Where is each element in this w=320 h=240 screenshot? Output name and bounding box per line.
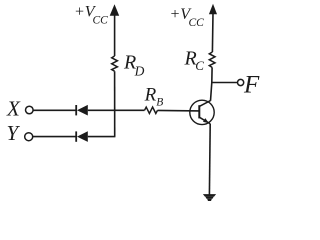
terminal Y — [25, 133, 33, 141]
wire collector rail (arrow to RC) — [211, 13, 214, 52]
resistor RB — [145, 107, 158, 113]
svg-text:F: F — [243, 72, 260, 99]
terminal F — [238, 79, 244, 85]
wire Y to vertical corner — [88, 136, 116, 138]
svg-text:D: D — [134, 64, 145, 79]
wire left vertical (Vcc rail to RD) — [114, 14, 116, 56]
wire base — [158, 109, 200, 112]
wire emitter down — [208, 124, 211, 195]
svg-text:CC: CC — [93, 15, 109, 27]
wire RC to collector — [211, 67, 213, 100]
svg-text:Y: Y — [7, 121, 21, 145]
wire Y input — [33, 136, 76, 138]
resistor RD — [112, 56, 118, 71]
ground — [203, 194, 216, 201]
power arrow (left +Vcc) — [110, 4, 120, 16]
diode D1 (input X) — [76, 105, 88, 116]
transistor Q1 — [190, 100, 214, 124]
svg-text:B: B — [156, 97, 163, 109]
diode D2 (input Y) — [76, 131, 88, 142]
terminal X — [26, 106, 34, 114]
svg-text:R: R — [144, 84, 157, 105]
wire X input — [33, 109, 76, 111]
svg-text:X: X — [6, 97, 21, 121]
svg-text:CC: CC — [189, 17, 205, 29]
wire output F — [212, 82, 238, 84]
wire left vertical (RD to Y line corner) — [114, 71, 116, 136]
wire X node to RB — [88, 109, 145, 111]
power arrow (right +Vcc) — [209, 4, 217, 14]
resistor RC — [209, 52, 215, 67]
svg-text:C: C — [195, 58, 204, 73]
